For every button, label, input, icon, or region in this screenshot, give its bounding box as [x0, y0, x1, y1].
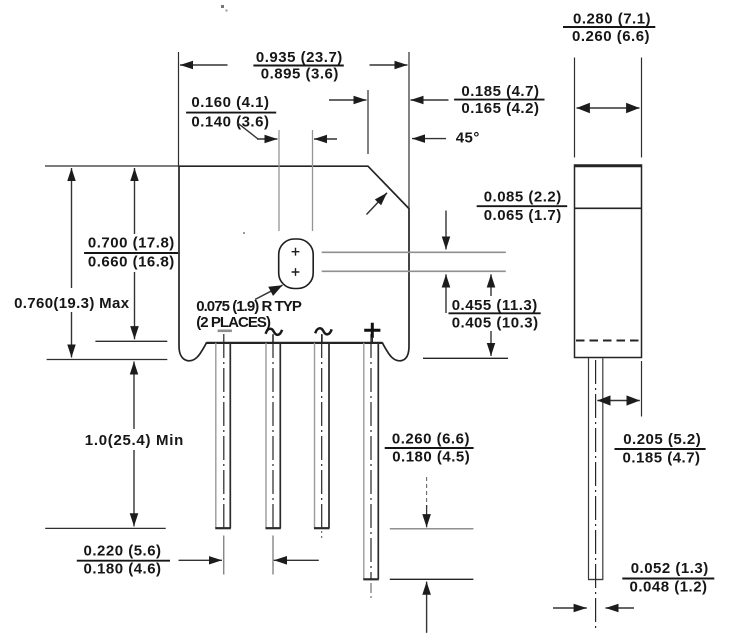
svg-text:0.052 (1.3): 0.052 (1.3) [631, 560, 709, 577]
svg-text:0.760(19.3) Max: 0.760(19.3) Max [14, 295, 130, 312]
svg-text:0.935 (23.7): 0.935 (23.7) [256, 49, 343, 66]
svg-text:45°: 45° [456, 129, 480, 146]
svg-text:0.205 (5.2): 0.205 (5.2) [623, 431, 701, 448]
svg-text:0.140 (3.6): 0.140 (3.6) [191, 113, 269, 130]
svg-text:0.185 (4.7): 0.185 (4.7) [461, 83, 539, 100]
svg-text:1.0(25.4) Min: 1.0(25.4) Min [85, 432, 184, 449]
svg-text:0.895 (3.6): 0.895 (3.6) [261, 66, 339, 83]
svg-text:0.160 (4.1): 0.160 (4.1) [191, 94, 269, 111]
svg-text:0.185 (4.7): 0.185 (4.7) [623, 450, 701, 467]
svg-text:0.075 (1.9) R TYP: 0.075 (1.9) R TYP [196, 298, 302, 315]
svg-text:0.260 (6.6): 0.260 (6.6) [392, 430, 470, 447]
svg-text:0.180 (4.5): 0.180 (4.5) [392, 449, 470, 466]
svg-text:0.700 (17.8): 0.700 (17.8) [88, 234, 175, 251]
svg-text:0.220 (5.6): 0.220 (5.6) [84, 543, 162, 560]
svg-text:(2 PLACES): (2 PLACES) [196, 314, 271, 331]
svg-text:0.260 (6.6): 0.260 (6.6) [572, 28, 650, 45]
svg-text:0.405 (10.3): 0.405 (10.3) [452, 314, 539, 331]
svg-text:0.048 (1.2): 0.048 (1.2) [630, 579, 708, 596]
svg-text:0.165 (4.2): 0.165 (4.2) [461, 100, 539, 117]
svg-text:0.660 (16.8): 0.660 (16.8) [88, 253, 175, 270]
svg-text:0.280 (7.1): 0.280 (7.1) [573, 10, 651, 27]
svg-text:0.065 (1.7): 0.065 (1.7) [484, 207, 562, 224]
svg-text:0.180 (4.6): 0.180 (4.6) [84, 561, 162, 578]
svg-text:0.455 (11.3): 0.455 (11.3) [452, 297, 538, 314]
svg-text:0.085 (2.2): 0.085 (2.2) [484, 189, 562, 206]
